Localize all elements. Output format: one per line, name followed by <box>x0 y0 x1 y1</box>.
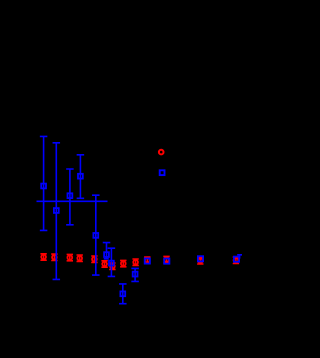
errorbar B2 <box>53 143 61 280</box>
point B13 <box>234 257 239 262</box>
point R1 <box>41 255 46 260</box>
errorbar R4 <box>77 255 83 261</box>
errorbar R13 <box>233 257 239 263</box>
errorbar B1 <box>40 136 48 230</box>
errorbar R8 <box>120 260 126 266</box>
errorbar R9 <box>132 259 138 265</box>
point R11 <box>164 257 169 262</box>
errorbar R10 <box>144 257 150 263</box>
errorbar R3 <box>67 254 73 260</box>
point R13 <box>234 258 239 263</box>
errorbar B4 <box>77 155 85 199</box>
errorbar R5 <box>91 256 97 262</box>
point R10 <box>145 258 150 263</box>
point R4 <box>77 256 82 261</box>
legend marker: red open circle <box>159 150 164 155</box>
errorbar B13 <box>237 255 242 259</box>
errorbar R7 <box>109 263 115 269</box>
point B3 <box>68 193 73 198</box>
point B6 <box>104 252 109 257</box>
blue series error bars <box>40 136 242 303</box>
errorbar B5 <box>92 195 100 275</box>
errorbar B8 <box>119 284 127 304</box>
point B7 <box>109 261 114 266</box>
point R2 <box>52 255 57 260</box>
point R9 <box>133 260 138 265</box>
red series error bars <box>40 254 239 270</box>
blue horizontal band line <box>37 200 108 202</box>
point R5 <box>92 257 97 262</box>
errorbar B6 <box>103 243 111 259</box>
point B5 <box>93 233 98 238</box>
point R7 <box>110 264 115 269</box>
point R6 <box>102 262 107 267</box>
point B12 <box>198 256 203 261</box>
point B9 <box>133 272 138 277</box>
errorbar R6 <box>101 261 107 267</box>
errorbar R11 <box>163 256 169 262</box>
errorbar B7 <box>108 248 116 276</box>
blue series markers (open squares) <box>41 174 239 296</box>
point B10 <box>145 258 150 263</box>
point R8 <box>121 261 126 266</box>
errorbar R12 <box>197 258 203 264</box>
point B2 <box>54 208 59 213</box>
point B11 <box>164 259 169 264</box>
errorbar B3 <box>66 169 74 225</box>
point B8 <box>120 291 125 296</box>
legend marker: blue open square <box>160 170 165 175</box>
point R3 <box>67 255 72 260</box>
errorbar R1 <box>40 254 46 260</box>
point R12 <box>198 258 203 263</box>
errorbar R2 <box>51 254 57 260</box>
point B4 <box>78 174 83 179</box>
errorbar B9 <box>131 268 139 281</box>
red series markers (open circles) <box>41 255 238 269</box>
point B1 <box>41 184 46 189</box>
